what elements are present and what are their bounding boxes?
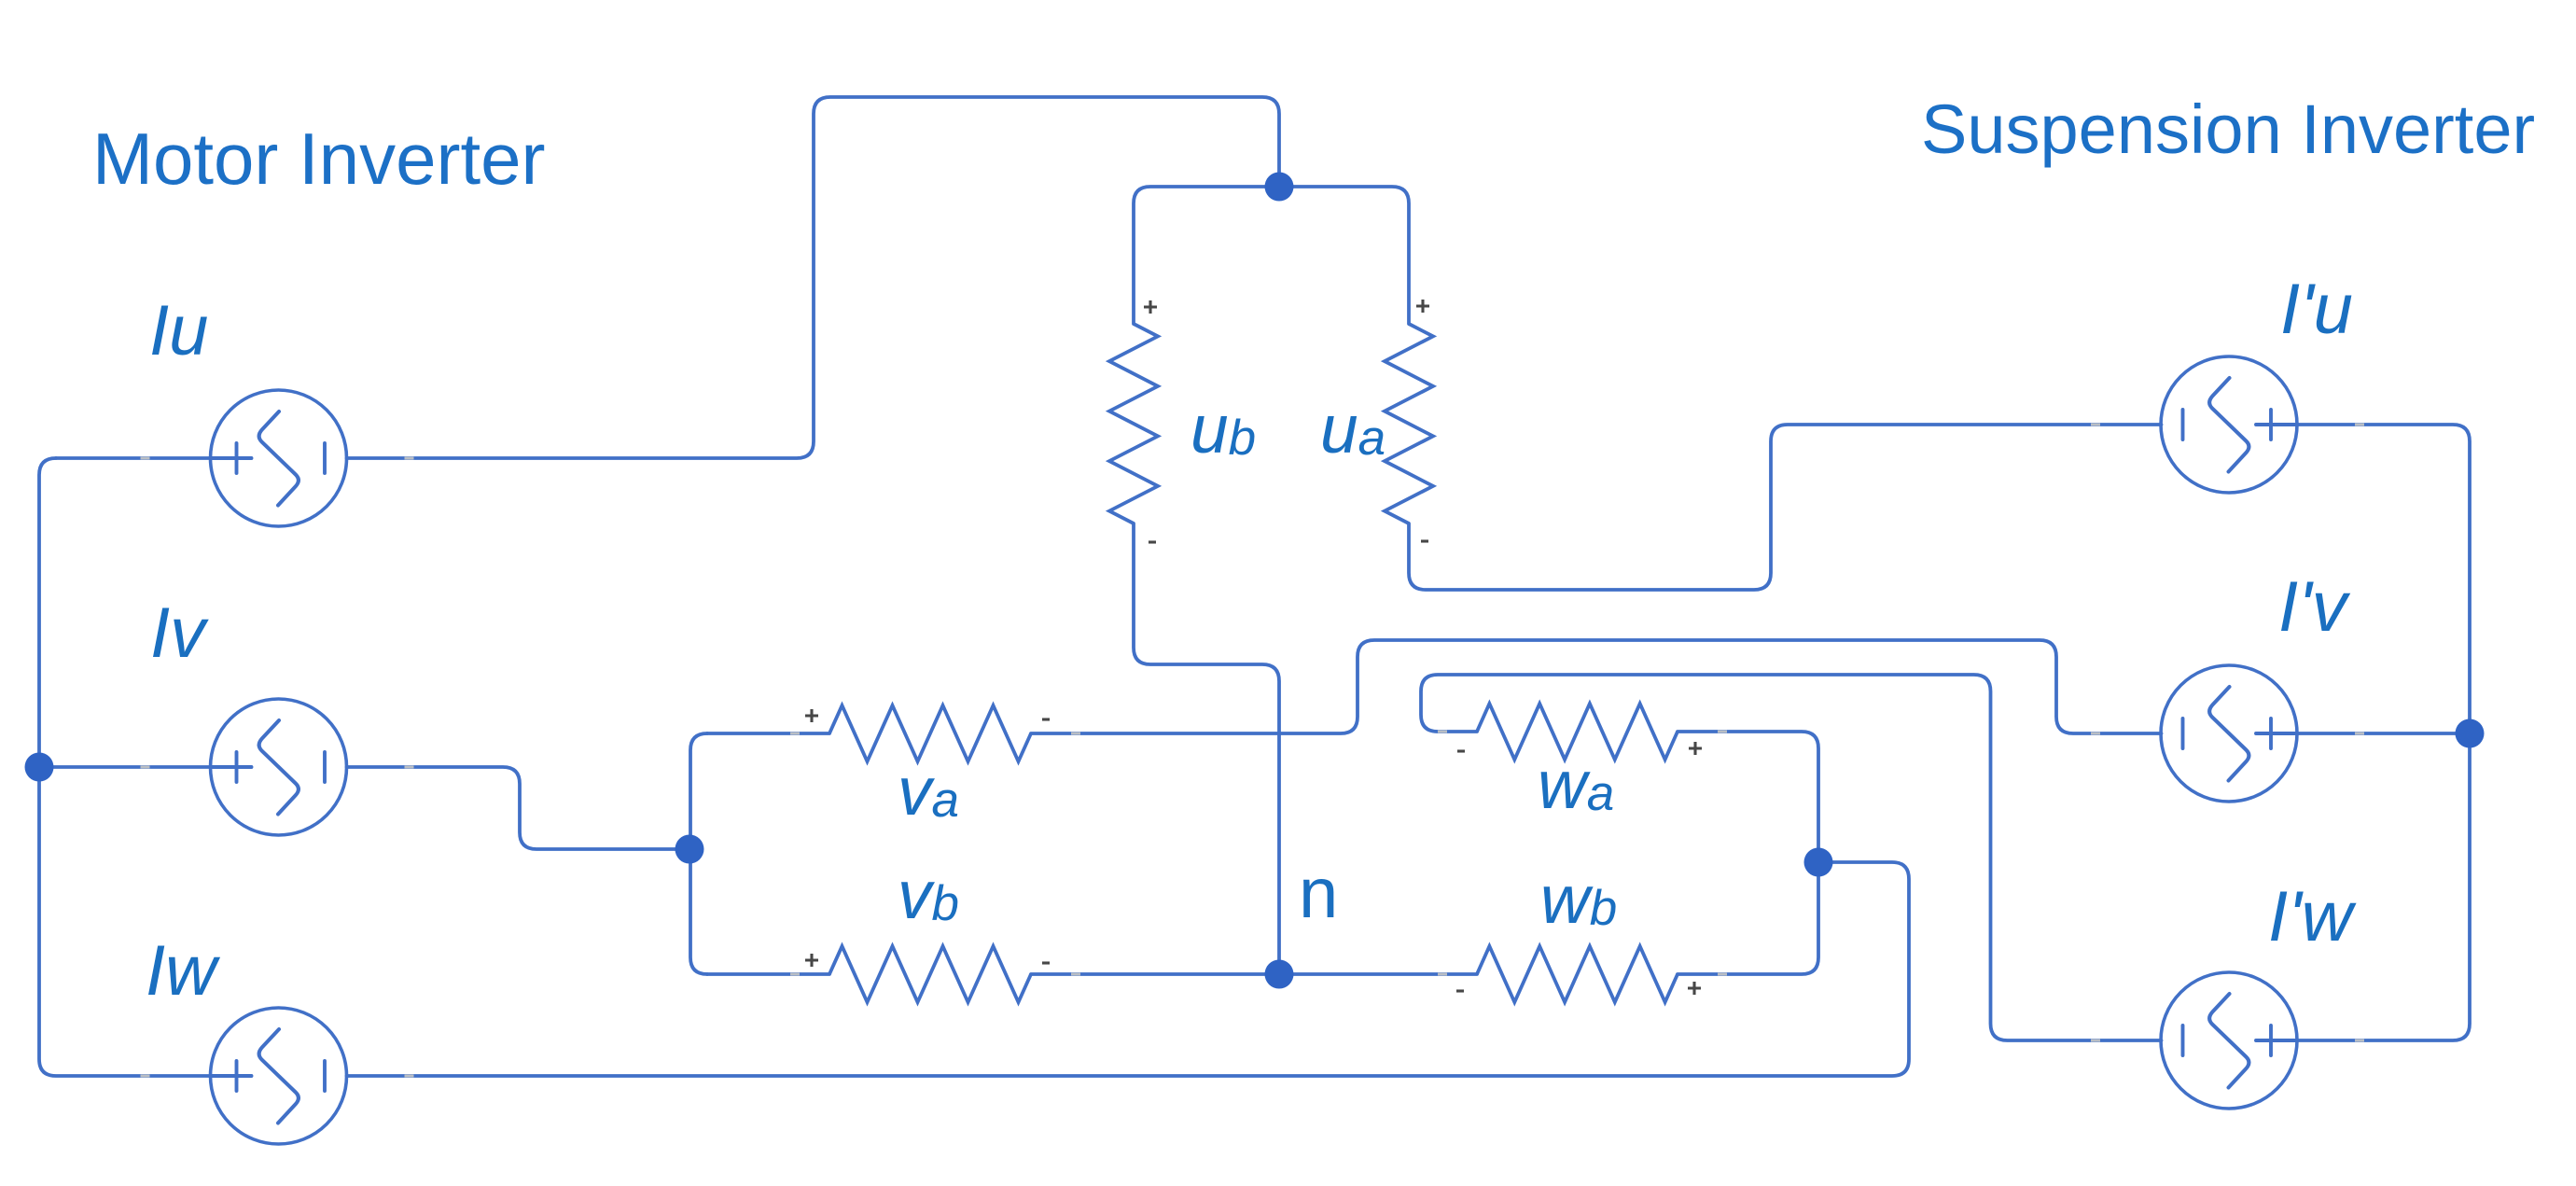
wire I'w to node B [2297, 733, 2471, 1040]
wire node A to ua [1279, 187, 1409, 324]
node B [2456, 719, 2485, 748]
node A [1265, 173, 1294, 202]
svg-text:Iu: Iu [149, 291, 208, 370]
svg-text:I'v: I'v [2278, 567, 2351, 647]
node C [675, 835, 704, 864]
current source Iv [211, 699, 347, 835]
resistor wb [1477, 946, 1678, 1002]
resistor va [829, 705, 1031, 761]
wire Iu to node A [347, 97, 1280, 458]
resistor vb [829, 946, 1031, 1002]
wire I'u to node B [2297, 425, 2471, 733]
wire node D to Iw [347, 862, 1910, 1076]
wire ua to I'u [1409, 425, 2162, 590]
current source I'v [2161, 665, 2297, 802]
wire tick marks [141, 457, 150, 460]
polarity marks wa [1457, 749, 1465, 752]
svg-text:Iv: Iv [150, 593, 209, 673]
resistor ua [1385, 324, 1433, 523]
wire wa to I'w [1421, 675, 2162, 1040]
node D [1804, 848, 1833, 877]
polarity marks wb [1456, 989, 1464, 992]
wire vb to node n [1031, 972, 1279, 976]
polarity marks va [805, 709, 818, 722]
svg-text:n: n [1299, 854, 1338, 933]
svg-text:Suspension Inverter: Suspension Inverter [1921, 91, 2535, 168]
resistor ub [1109, 324, 1158, 523]
svg-text:I'u: I'u [2280, 270, 2353, 349]
wire wa to node D [1678, 732, 1818, 862]
wire Iv left [39, 765, 211, 769]
wire node n to wb [1279, 972, 1477, 976]
polarity marks ub [1144, 300, 1157, 314]
wire ub to node n [1134, 523, 1279, 974]
svg-text:Iw: Iw [146, 931, 220, 1011]
current source I'u [2161, 356, 2297, 493]
current source Iw [211, 1008, 347, 1144]
resistor wa [1477, 704, 1678, 760]
wire vb left lead [707, 972, 829, 976]
current source I'w [2161, 972, 2297, 1109]
node n [1265, 960, 1294, 989]
polarity marks ua [1416, 300, 1429, 313]
wire Iu left [56, 456, 211, 460]
polarity marks vb [805, 954, 818, 967]
wire node C riser [690, 733, 707, 974]
wire va to I'v [1031, 640, 2162, 733]
wire node A to ub [1134, 187, 1279, 324]
wire va left lead [707, 732, 829, 735]
wire wb to node D [1678, 862, 1818, 974]
wire Iv to node C [347, 767, 690, 849]
wire I'v to node B [2297, 732, 2471, 735]
current source Iu [211, 390, 347, 526]
svg-text:Motor Inverter: Motor Inverter [92, 118, 545, 200]
wire left bus [39, 458, 213, 1076]
node Iv-bus [25, 753, 54, 782]
svg-text:I'w: I'w [2268, 877, 2357, 956]
